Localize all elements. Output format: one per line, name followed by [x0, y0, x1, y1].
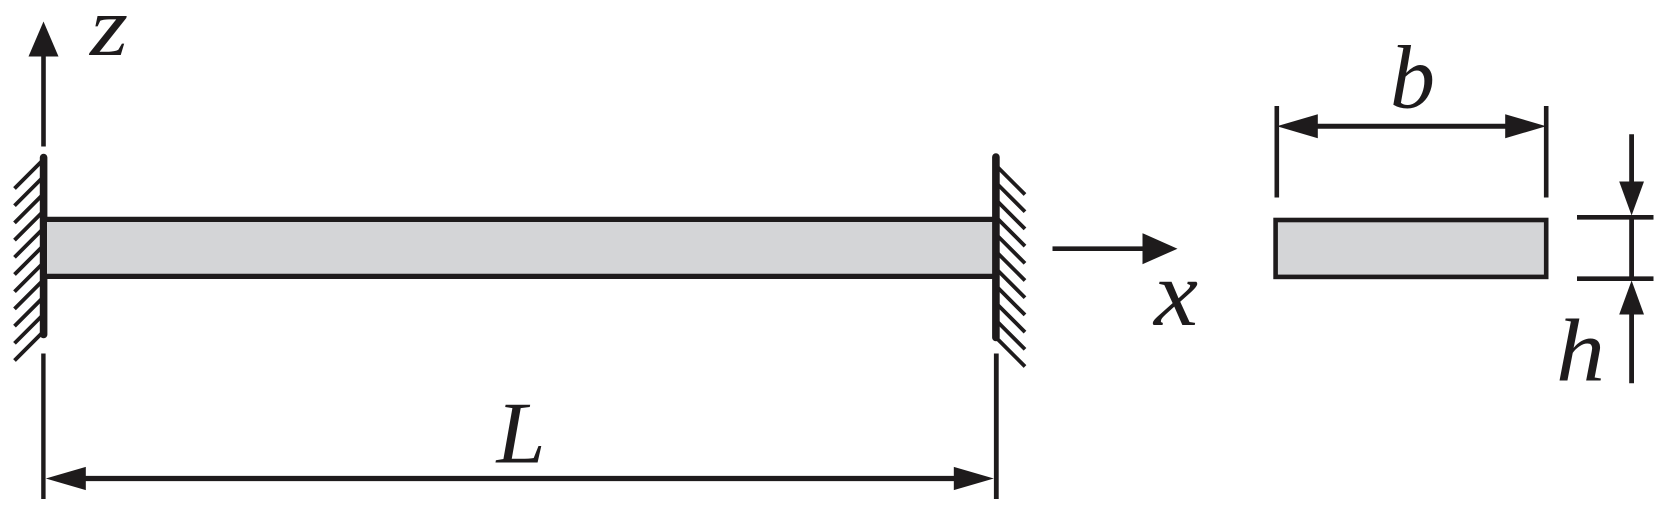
- z-axis arrow: [29, 22, 59, 147]
- right fixed support wall: [992, 157, 1000, 338]
- right support hatching: [997, 166, 1026, 367]
- svg-text:x: x: [1152, 242, 1198, 346]
- cross-section rectangle: [1276, 220, 1547, 277]
- L dimension double-headed arrow: [46, 467, 994, 490]
- h dimension lower arrow (points up): [1619, 281, 1644, 384]
- x-axis arrow: [1053, 233, 1178, 264]
- left support hatching: [15, 160, 44, 361]
- svg-text:z: z: [89, 0, 128, 74]
- beam (grey fill): [47, 219, 992, 276]
- left fixed support wall: [40, 158, 48, 335]
- L dimension left extension line: [41, 354, 45, 500]
- svg-text:b: b: [1390, 29, 1435, 128]
- L dimension right extension line: [994, 354, 999, 500]
- b dimension double-headed arrow: [1277, 114, 1546, 138]
- beam top edge: [42, 217, 998, 222]
- svg-text:h: h: [1556, 303, 1605, 401]
- b dimension left extension line: [1275, 106, 1280, 198]
- h dimension connector between ticks: [1629, 217, 1634, 279]
- svg-text:L: L: [495, 386, 546, 483]
- h dimension top tick: [1577, 215, 1654, 220]
- b dimension right extension line: [1544, 106, 1549, 198]
- h dimension bottom tick: [1577, 276, 1654, 281]
- beam bottom edge: [42, 274, 998, 279]
- h dimension upper arrow (points down): [1619, 134, 1644, 215]
